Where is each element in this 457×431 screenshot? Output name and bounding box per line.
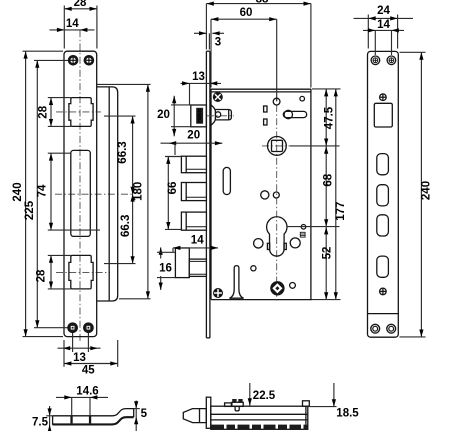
svg-text:13: 13 — [192, 71, 205, 83]
dim 14.6 — [56, 396, 108, 398]
dim 88 overall — [206, 3, 311, 5]
deadbolt tooth 2 — [181, 183, 206, 201]
latch tail bevel — [211, 104, 216, 125]
separator line — [368, 313, 399, 315]
tab left — [70, 415, 72, 423]
svg-text:14: 14 — [66, 18, 79, 30]
latch bolt head — [191, 105, 207, 127]
case centerline (cylinder axis) — [276, 105, 278, 302]
dim 18.5 — [333, 383, 335, 407]
centerline vertical left view — [79, 30, 81, 341]
latch tail bar — [215, 110, 231, 120]
svg-text:74: 74 — [36, 184, 48, 197]
dim 14 night latch — [173, 247, 218, 249]
dim 16 — [160, 247, 162, 258]
dim 24 — [354, 17, 414, 19]
hole left of cylinder — [254, 239, 263, 248]
svg-text:20: 20 — [157, 109, 170, 121]
dim 14 — [363, 29, 404, 31]
dim 177 — [335, 89, 337, 300]
svg-text:60: 60 — [240, 7, 253, 19]
cylinder axis extension (solid) — [276, 19, 278, 101]
svg-text:66.3: 66.3 — [120, 215, 132, 237]
dim 3 faceplate — [194, 32, 206, 34]
dim 240 left — [25, 51, 27, 336]
svg-text:180: 180 — [132, 182, 144, 201]
dim 13 bottom — [72, 333, 74, 352]
svg-text:52: 52 — [322, 247, 334, 260]
dim 5 — [135, 401, 137, 431]
svg-text:14: 14 — [377, 19, 390, 31]
dim 47.5 — [325, 89, 327, 146]
dim 20 horizontal — [161, 142, 223, 144]
dim 52 — [325, 227, 327, 300]
svg-text:66.3: 66.3 — [117, 141, 129, 163]
dim 14 head — [50, 29, 95, 31]
top bump 1 — [232, 399, 236, 402]
case end double edge — [305, 406, 307, 424]
cylinder side ear left — [267, 243, 269, 249]
screw bottom-right — [84, 324, 92, 332]
dim 66.3 upper — [132, 116, 134, 194]
section plate left end — [52, 416, 54, 425]
tiny marked square — [300, 232, 305, 237]
guide slot vertical — [223, 167, 230, 194]
svg-text:18.5: 18.5 — [336, 407, 359, 419]
dim 28 latch bottom — [50, 255, 52, 289]
dim 60 backset — [211, 18, 277, 20]
top block B — [232, 402, 243, 406]
oval cutout 1 — [377, 154, 389, 175]
night latch block — [175, 248, 189, 278]
inner line 2 — [211, 419, 308, 421]
faceplate strip left edge — [205, 51, 207, 338]
cylinder side ear right — [284, 243, 286, 249]
latch tail hole — [215, 112, 220, 117]
small hole pair right — [273, 192, 279, 198]
dim 7.5 — [49, 406, 51, 431]
long slot — [71, 150, 91, 236]
phillips screw lower — [380, 288, 387, 295]
svg-text:177: 177 — [335, 202, 347, 221]
svg-text:240: 240 — [12, 182, 24, 201]
dim 28 latch top — [50, 98, 52, 127]
latch nose wedge — [183, 409, 206, 423]
oval cutout 3 — [377, 215, 389, 236]
flange fold line — [108, 87, 110, 300]
dim 45 — [63, 340, 65, 367]
deadbolt tooth 3 — [181, 212, 206, 230]
svg-text:7.5: 7.5 — [32, 417, 49, 429]
screw top-left — [69, 56, 77, 64]
dim 68 — [325, 146, 327, 227]
case body top view — [211, 406, 308, 429]
horizontal slot with hole — [283, 111, 306, 117]
small hole lower left — [251, 266, 256, 271]
svg-text:20: 20 — [187, 130, 200, 142]
svg-text:13: 13 — [73, 352, 86, 364]
svg-text:5: 5 — [141, 408, 148, 420]
svg-text:225: 225 — [24, 200, 36, 220]
faceplate strip right edge — [209, 51, 211, 338]
svg-text:66: 66 — [167, 182, 179, 195]
dim 180 — [147, 84, 149, 298]
small hole near bottom screw — [290, 283, 296, 289]
dim 20 latch height — [173, 96, 175, 137]
centerline latch top — [56, 111, 101, 113]
svg-text:16: 16 — [159, 262, 172, 274]
top notch — [235, 406, 239, 411]
svg-text:28: 28 — [35, 269, 47, 282]
dim 74 — [50, 153, 52, 230]
two small rect holes — [264, 106, 267, 112]
plate outline — [64, 51, 97, 336]
screw top-left — [371, 56, 380, 65]
svg-text:45: 45 — [82, 364, 95, 376]
tab right — [89, 415, 91, 423]
svg-text:22.5: 22.5 — [253, 390, 276, 402]
latch cutout top — [69, 98, 93, 127]
centerline latch bottom — [56, 271, 110, 273]
screw bottom-left — [371, 324, 380, 333]
phillips screw top-left — [213, 93, 222, 102]
screw bottom-right — [387, 324, 396, 333]
section plate top profile — [53, 409, 134, 418]
oval cutout 4 — [377, 256, 389, 277]
section plate bottom thick edge — [53, 417, 134, 424]
night latch bolt — [189, 259, 206, 276]
latch cutout bottom — [69, 255, 93, 289]
screw top-right — [387, 56, 396, 65]
dim 28 head — [64, 8, 97, 10]
svg-text:14: 14 — [191, 234, 204, 246]
top tab A — [225, 403, 232, 407]
dim 13 latch — [181, 82, 222, 84]
faceplate strip caps — [206, 50, 210, 52]
svg-text:47.5: 47.5 — [324, 106, 336, 129]
phillips screw bottom-left — [214, 289, 223, 298]
latch tail end cap — [228, 110, 230, 120]
guide pin mushroom — [229, 266, 243, 299]
follower (spindle hub) — [268, 137, 287, 156]
svg-text:Häfele: Häfele — [197, 108, 203, 123]
dim 66.3 lower — [132, 194, 134, 263]
screw bottom-left — [69, 324, 77, 332]
small hole right — [301, 225, 306, 230]
svg-text:14.6: 14.6 — [76, 385, 98, 397]
follower centerline — [262, 145, 294, 147]
flange outer edge — [97, 87, 118, 301]
small hole top right — [300, 96, 305, 101]
dim 66 deadbolt — [167, 157, 169, 230]
euro profile cylinder hole — [267, 217, 287, 256]
svg-text:88: 88 — [256, 0, 269, 6]
latch centerline — [207, 115, 234, 117]
centerline middle — [55, 193, 133, 195]
lock case body — [211, 89, 311, 300]
svg-text:28: 28 — [37, 105, 49, 118]
small hole pair left — [261, 191, 269, 199]
bottom feet band — [212, 425, 308, 429]
svg-text:68: 68 — [322, 173, 334, 186]
hole right of cylinder — [290, 238, 300, 248]
fixing screw on axis bottom — [270, 281, 284, 295]
svg-text:24: 24 — [377, 5, 390, 17]
phillips screw upper — [380, 94, 387, 101]
svg-text:240: 240 — [420, 181, 432, 200]
hole on axis below top — [273, 98, 280, 105]
deadbolt tooth 1 — [181, 156, 206, 173]
oval cutout 2 — [377, 185, 389, 206]
plate outline — [368, 51, 399, 337]
right end tab — [303, 401, 310, 407]
faceplate edge-on — [206, 397, 211, 428]
svg-text:3: 3 — [215, 36, 221, 48]
screw top-right — [85, 56, 93, 64]
dim 240 right — [420, 52, 422, 337]
dim 225 — [36, 60, 38, 327]
square latch cutout — [374, 103, 392, 127]
inner line 1 — [211, 413, 308, 415]
svg-text:28: 28 — [74, 0, 87, 9]
top bump 2 — [238, 399, 242, 402]
dim 22.5 — [249, 383, 251, 406]
